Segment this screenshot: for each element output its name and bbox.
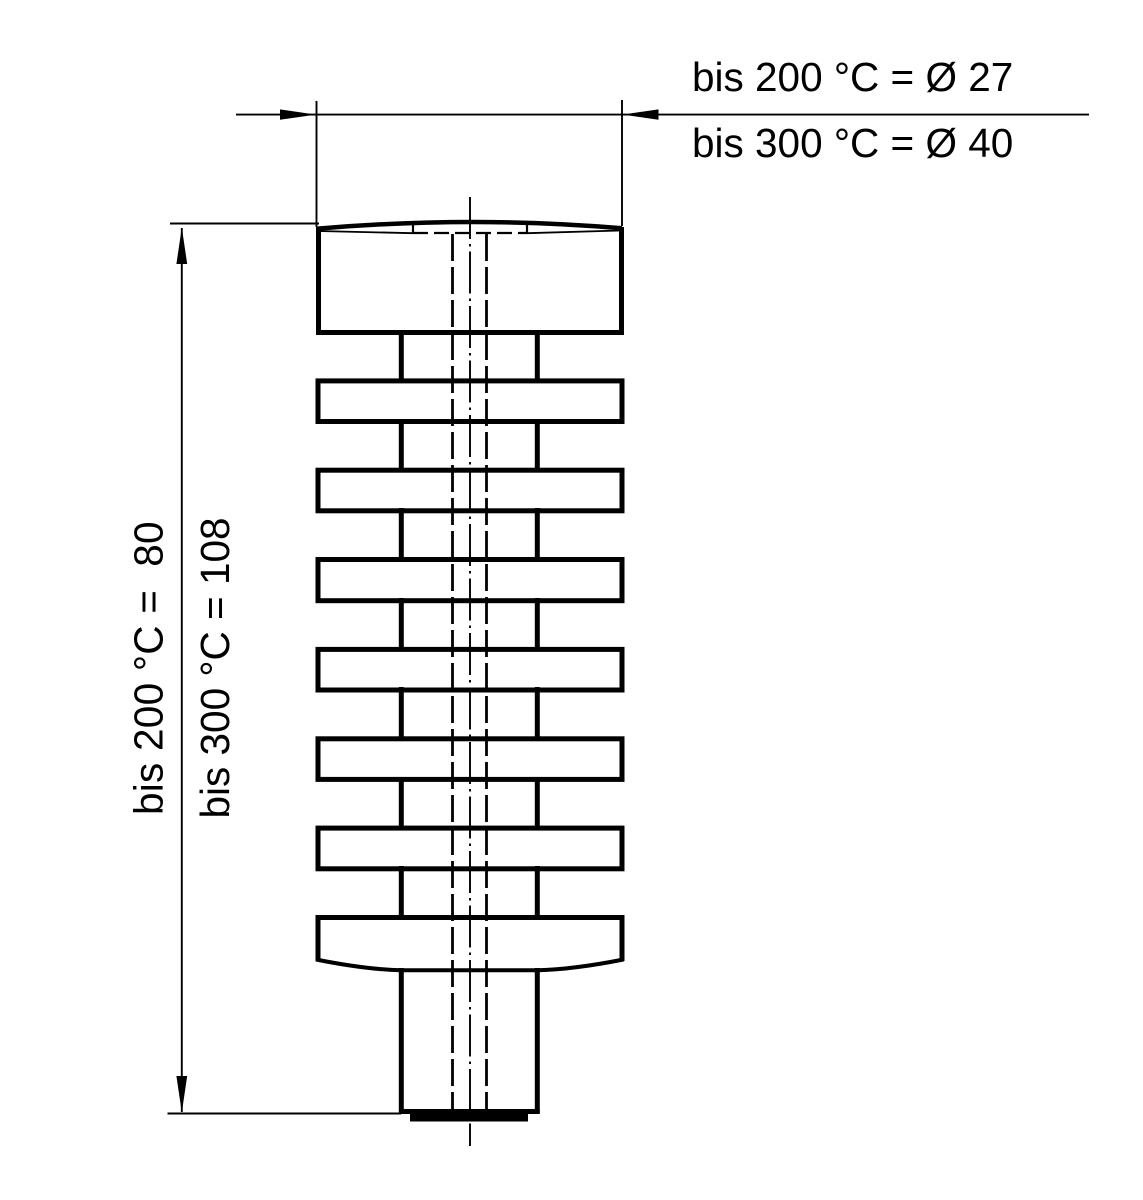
- svg-text:bis 300 °C = Ø 40: bis 300 °C = Ø 40: [692, 120, 1013, 166]
- stem left edge: [399, 968, 404, 1113]
- top recess tick right: [526, 224, 528, 234]
- extension line right vertical (dia dimension): [621, 100, 623, 226]
- fin 3: [318, 560, 622, 601]
- hidden thread line left (dashed): [451, 234, 454, 1110]
- arrowhead right-pointing at left extension: [280, 109, 316, 119]
- head crown top edge: [317, 222, 622, 229]
- arrowhead down at bottom: [176, 1076, 187, 1113]
- fin 2: [318, 470, 622, 511]
- stem right edge: [535, 968, 540, 1113]
- centerline (vertical chain line through axis): [469, 197, 471, 1146]
- neck segment 6: [401, 777, 537, 830]
- arrowhead up at top: [176, 228, 187, 265]
- extension line bottom horizontal (length dimension): [168, 1113, 402, 1115]
- arrowhead left-pointing at right extension: [623, 109, 659, 119]
- stem end chamfer band: [410, 1114, 528, 1122]
- fin 1: [318, 381, 622, 422]
- stem bottom edge: [399, 1109, 540, 1114]
- neck segment 3: [401, 508, 537, 562]
- extension line top horizontal (length dimension): [170, 223, 319, 225]
- svg-text:bis 200 °C = 80: bis 200 °C = 80: [126, 521, 172, 815]
- svg-text:bis 200 °C = Ø 27: bis 200 °C = Ø 27: [692, 54, 1013, 100]
- neck segment 4: [401, 598, 537, 651]
- crown under-edge left: [318, 231, 413, 233]
- bottom flange top and sides: [318, 918, 622, 962]
- crown under-edge right: [527, 231, 621, 234]
- dimension line horizontal (diameter): [236, 114, 1089, 116]
- hidden thread line right (dashed): [485, 234, 488, 1110]
- top recess hidden edge (dashed): [413, 232, 527, 234]
- head block outline: [319, 227, 622, 333]
- neck segment 2: [401, 419, 537, 472]
- top recess tick left: [412, 225, 414, 234]
- fin 6: [318, 828, 622, 869]
- fin 4: [318, 649, 622, 690]
- fin 5: [318, 739, 622, 780]
- neck segment 1: [401, 330, 537, 383]
- bottom flange tapered bottom edge: [316, 960, 624, 971]
- dimension line vertical (length): [181, 228, 183, 1112]
- neck segment 7: [401, 866, 537, 920]
- neck segment 5: [401, 687, 537, 741]
- svg-text:bis 300 °C = 108: bis 300 °C = 108: [192, 517, 238, 818]
- extension line left vertical (dia dimension): [316, 101, 318, 227]
